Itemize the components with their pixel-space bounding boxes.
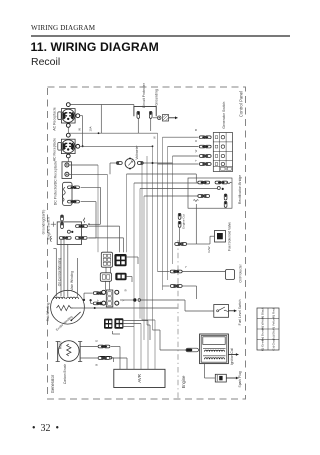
ground mark at border xyxy=(50,236,51,242)
svg-text:W: W xyxy=(194,149,198,152)
wire from AC receptacle 2 bottom pin xyxy=(67,158,69,162)
four pin connector right xyxy=(114,318,123,329)
wire corner drop mid xyxy=(100,105,102,134)
wire to switch pill row2 xyxy=(168,146,199,148)
svg-text:10A: 10A xyxy=(89,126,93,131)
ignition coil output arrow xyxy=(228,354,238,356)
svg-text:Generator: Generator xyxy=(50,374,55,393)
voltmeter dial xyxy=(125,159,135,169)
rotor circle xyxy=(59,341,80,362)
wire oil protecter xyxy=(158,271,170,273)
generator switch terminal block xyxy=(213,133,232,172)
wire to switch pill row4 xyxy=(158,163,199,165)
wire to switch pill row3 xyxy=(173,155,199,157)
wire DC protection lower xyxy=(81,201,96,203)
engine switch body xyxy=(57,222,81,245)
generator switch pill pair row 2 xyxy=(199,145,205,148)
AC receptacle 1 bottom pin xyxy=(66,124,70,128)
AC receptacle 2 contact slots xyxy=(62,143,66,151)
bullet connector dots left xyxy=(102,290,106,294)
stator right winding xyxy=(67,297,79,299)
header running title xyxy=(31,24,95,32)
engine switch contact circle xyxy=(67,230,70,233)
stator switch diagonal xyxy=(71,312,80,320)
engine switch squiggle xyxy=(83,218,85,223)
bullet connector strip xyxy=(106,290,113,307)
voltmeter right pill xyxy=(137,162,143,165)
engine switch bottom-left pill pair xyxy=(59,237,65,240)
engine switch upper terminal xyxy=(61,215,64,221)
svg-text:G) Green: G) Green xyxy=(261,338,265,351)
grounding terminal circle xyxy=(157,116,161,120)
wire fuel valve loop xyxy=(196,243,210,245)
bridge pill single row 1 xyxy=(215,181,221,184)
wire engine switch right xyxy=(88,225,119,227)
svg-text:B: B xyxy=(95,364,99,366)
DC receptacle terminal - xyxy=(65,172,69,176)
svg-text:AC Receptacle: AC Receptacle xyxy=(53,138,57,161)
wire bus vertical 7 xyxy=(172,156,174,264)
wire ignition coil feed xyxy=(160,349,186,351)
svg-text:Engine: Engine xyxy=(181,375,186,388)
svg-text:Rectification Bridge: Rectification Bridge xyxy=(238,175,242,204)
wire engine switch bottom right xyxy=(88,237,123,239)
generator / engine dashed divider xyxy=(177,240,179,399)
bridge pill pair row 1 xyxy=(198,181,204,184)
wire avr feeds xyxy=(133,297,135,370)
grounding block xyxy=(162,115,168,121)
wire bus vertical 4 xyxy=(157,133,159,271)
wire cluster B to strip stubs xyxy=(105,281,107,290)
wire DC receptacle plus xyxy=(69,164,98,166)
wire to switch pill row1 xyxy=(163,136,199,138)
wire from AC receptacle 1 top pin xyxy=(70,104,134,106)
wiring diagram outer dashed border xyxy=(48,87,246,399)
wire fuel level switch feed xyxy=(120,299,133,301)
wire stator zigzag output xyxy=(71,307,177,309)
oil protecter pill pair xyxy=(170,270,176,273)
section title xyxy=(31,40,159,54)
svg-text:Rotor: Rotor xyxy=(59,340,63,349)
AC receptacle 1 top pin xyxy=(66,103,70,107)
svg-text:Fuel Solenoid Valve: Fuel Solenoid Valve xyxy=(228,222,232,251)
svg-text:Spark Plug: Spark Plug xyxy=(238,371,242,387)
AC receptacle 1 body xyxy=(61,109,75,123)
svg-text:Gr) Gray: Gr) Gray xyxy=(272,338,276,350)
subtitle Recoil xyxy=(31,56,60,68)
AC receptacle 1 contact slots xyxy=(62,112,66,120)
wire connector B outputs xyxy=(127,276,132,278)
wire spark plug feed xyxy=(204,364,206,378)
ignition coil primary winding xyxy=(205,350,225,352)
oil alert terminal upper xyxy=(178,213,181,219)
header rule xyxy=(31,35,290,37)
bullet connector dots right xyxy=(115,290,119,294)
stator output pill pair lower xyxy=(93,302,99,305)
wire stator upper output xyxy=(83,293,85,300)
fuel level switch junction dots xyxy=(133,298,136,301)
bridge contact circle xyxy=(217,187,220,190)
engine switch bottom-right pill pair xyxy=(75,237,81,240)
ignition coil body xyxy=(200,334,229,364)
AVR box xyxy=(114,369,165,387)
wire staircase row 4 xyxy=(144,195,199,197)
oil protecter second pill pair xyxy=(170,285,176,288)
wire from AC receptacle 1 side pin xyxy=(80,115,83,117)
wire bus vertical 2 xyxy=(146,156,148,325)
DC receptacle terminal + xyxy=(65,163,69,167)
wire DC receptacle minus xyxy=(69,173,107,175)
wire voltmeter right xyxy=(144,162,173,164)
svg-text:Oil Protecter: Oil Protecter xyxy=(239,263,243,282)
wire grounding link xyxy=(153,117,158,119)
bridge vertical pill upper xyxy=(224,194,227,200)
DC receptacle body xyxy=(62,162,71,179)
rotor winding zigzag xyxy=(67,344,71,356)
svg-text:Bu) Blue: Bu) Blue xyxy=(272,328,276,340)
stator left winding xyxy=(54,297,66,299)
ignition coil secondary winding xyxy=(205,358,225,360)
wire voltmeter left xyxy=(110,162,116,164)
stator circle xyxy=(51,290,85,324)
rotor pill pair upper xyxy=(98,345,104,348)
generator switch pill pair row 1 xyxy=(199,136,205,139)
wire four pin connector outputs xyxy=(123,320,148,322)
spark plug arrow xyxy=(226,377,238,379)
stator output pill pair upper xyxy=(93,292,99,295)
connector housing A left xyxy=(101,252,112,267)
svg-text:G/W: G/W xyxy=(207,246,211,252)
svg-text:R) Red: R) Red xyxy=(272,308,276,318)
ignition coil input pill xyxy=(186,348,199,352)
voltmeter left pill xyxy=(116,162,122,165)
wire oil protecter lower xyxy=(163,285,170,287)
bridge pill pair row 2 xyxy=(198,195,204,198)
generator switch pill pair row 4 xyxy=(199,163,205,166)
wire staircase row 3 xyxy=(140,188,217,190)
svg-text:AVR: AVR xyxy=(137,374,142,383)
wire rotor upper xyxy=(80,346,98,348)
DC protection lower pill pair xyxy=(68,200,74,203)
wire stator lower output xyxy=(90,300,92,303)
four pin connector left xyxy=(104,319,112,329)
wire from AC receptacle 2 side pin xyxy=(80,145,153,147)
connector housing B left xyxy=(100,273,111,282)
fuel level switch arrow xyxy=(229,310,237,312)
circuit protecter right terminal xyxy=(149,111,152,118)
svg-text:Sub Winding: Sub Winding xyxy=(46,302,50,321)
svg-text:DC Protection: DC Protection xyxy=(53,183,57,205)
wire staircase row 1 xyxy=(127,173,197,175)
svg-text:Engine Cut: Engine Cut xyxy=(181,214,185,229)
svg-text:B: B xyxy=(124,289,128,291)
circuit protecter left terminal xyxy=(137,111,140,118)
wire breaker pill drops xyxy=(137,119,139,134)
AC receptacle 2 body xyxy=(61,139,75,153)
svg-text:B: B xyxy=(87,223,91,225)
AC receptacle 2 top pin xyxy=(66,133,70,137)
AVR input pill pair xyxy=(100,356,106,359)
svg-text:Control Panel: Control Panel xyxy=(239,91,244,117)
engine switch right pill pair xyxy=(76,225,82,228)
svg-text:DC Receptacle: DC Receptacle xyxy=(53,161,57,185)
wire long horizontal upper xyxy=(68,132,157,134)
svg-text:Excite Winding: Excite Winding xyxy=(55,315,74,332)
grounding arrow xyxy=(169,117,178,119)
rotor brush holders xyxy=(57,342,59,362)
svg-text:Y: Y xyxy=(184,266,188,268)
wire DC protection upper xyxy=(81,186,101,188)
svg-text:G: G xyxy=(95,339,99,342)
wire bus vertical 5 xyxy=(162,137,164,290)
wire engine switch bottom left down xyxy=(60,240,62,296)
svg-text:B: B xyxy=(194,129,198,131)
svg-text:Engine Switch: Engine Switch xyxy=(46,217,50,239)
svg-text:B) Black: B) Black xyxy=(261,307,265,319)
stator junction dots xyxy=(83,299,85,301)
svg-text:R: R xyxy=(194,140,198,142)
wire cluster A to B stubs xyxy=(105,267,107,273)
page number footer xyxy=(32,423,59,434)
rotor pill pair lower xyxy=(98,357,104,360)
wire bus vertical 1 xyxy=(141,163,143,320)
svg-text:Y) Yellow: Y) Yellow xyxy=(272,317,276,330)
wire bus vertical 3 xyxy=(152,146,154,330)
wire staircase row 2 xyxy=(134,182,199,184)
connector housing A right (plug) xyxy=(114,254,126,266)
circuit protecter bracket xyxy=(134,106,156,116)
svg-text:Voltmeter: Voltmeter xyxy=(135,144,139,159)
wire bridge bottom to fuel valve xyxy=(195,204,197,244)
fuel level switch body xyxy=(214,305,229,318)
svg-text:Y: Y xyxy=(96,299,100,301)
wire AC receptacle 1 to 2 xyxy=(67,128,69,134)
svg-text:Generator Switch: Generator Switch xyxy=(222,102,226,129)
svg-text:Grounding(Earth): Grounding(Earth) xyxy=(42,210,46,235)
AC receptacle 2 bottom pin xyxy=(66,154,70,158)
svg-text:Carbon Brush: Carbon Brush xyxy=(63,364,67,385)
stator resistor zigzag xyxy=(57,305,73,310)
svg-text:Grounding: Grounding xyxy=(154,89,158,105)
wire stator coil leads xyxy=(63,240,65,297)
wire avr pill link xyxy=(112,357,114,359)
DC protection breaker curve xyxy=(62,187,65,201)
rectification bridge outline xyxy=(188,178,232,208)
colour code legend table xyxy=(257,308,279,350)
svg-text:Ignition Coil: Ignition Coil xyxy=(230,348,234,365)
svg-text:W: W xyxy=(78,128,82,131)
bridge squiggle ac mark xyxy=(227,182,232,184)
svg-text:W: W xyxy=(152,136,156,139)
DC protection upper pill pair xyxy=(68,186,74,189)
generator switch pill pair row 3 xyxy=(199,155,205,158)
wire connector A outputs xyxy=(127,256,138,258)
AC receptacle 1 side pin xyxy=(76,114,80,118)
engine switch inner terminal xyxy=(61,223,64,229)
oil alert terminal lower xyxy=(178,221,181,227)
wire bus vertical 6 xyxy=(167,147,169,280)
wire rotor lower xyxy=(80,357,98,359)
fuel solenoid valve body xyxy=(215,231,226,243)
svg-text:Circuit Protecter: Circuit Protecter xyxy=(142,82,146,108)
svg-text:AC Receptacle: AC Receptacle xyxy=(53,107,57,130)
bridge vertical pill lower xyxy=(224,201,227,207)
svg-text:Y: Y xyxy=(194,159,198,161)
svg-text:Fuel Level Switch: Fuel Level Switch xyxy=(238,299,242,325)
fuel valve pill pair xyxy=(175,243,181,246)
AC receptacle 2 side pin xyxy=(76,144,80,148)
wire oil control winding xyxy=(55,249,57,297)
svg-text:Main Winding: Main Winding xyxy=(70,271,74,291)
oil protecter body xyxy=(226,270,235,280)
wire engine cutoff down xyxy=(179,228,181,244)
DC protection body xyxy=(63,182,72,205)
spark plug body xyxy=(215,374,226,382)
connector housing B right (plug) xyxy=(115,273,126,281)
